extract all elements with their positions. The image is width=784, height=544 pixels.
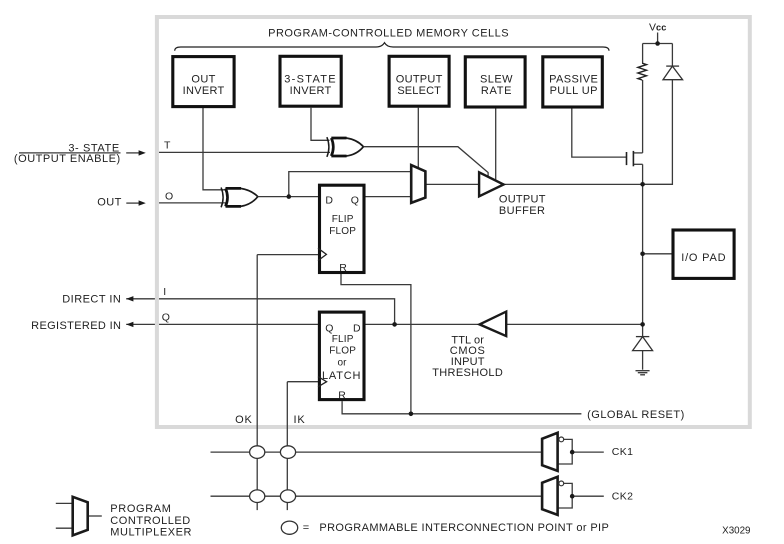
svg-text:MULTIPLEXER: MULTIPLEXER: [110, 527, 192, 539]
svg-text:BUFFER: BUFFER: [499, 205, 545, 217]
svg-text:INVERT: INVERT: [183, 85, 225, 97]
svg-text:=: =: [303, 522, 309, 534]
svg-text:T: T: [164, 139, 171, 151]
svg-text:LATCH: LATCH: [322, 370, 361, 382]
svg-text:CK2: CK2: [612, 490, 633, 502]
svg-text:PROGRAMMABLE INTERCONNECTION P: PROGRAMMABLE INTERCONNECTION POINT or PI…: [319, 522, 609, 534]
svg-text:CK1: CK1: [612, 446, 633, 458]
svg-text:OUTPUT: OUTPUT: [396, 74, 443, 86]
svg-text:I: I: [163, 286, 166, 298]
svg-text:DIRECT IN: DIRECT IN: [62, 294, 121, 306]
svg-text:PASSIVE: PASSIVE: [549, 74, 598, 86]
svg-text:Vcc: Vcc: [649, 22, 667, 34]
svg-text:SELECT: SELECT: [397, 85, 441, 97]
svg-text:O: O: [165, 191, 173, 203]
svg-text:REGISTERED IN: REGISTERED IN: [31, 320, 121, 332]
svg-text:PROGRAM-CONTROLLED MEMORY CELL: PROGRAM-CONTROLLED MEMORY CELLS: [268, 28, 509, 40]
svg-text:D: D: [353, 322, 361, 334]
svg-text:PROGRAM: PROGRAM: [110, 503, 171, 515]
svg-text:3-STATE: 3-STATE: [284, 74, 337, 86]
svg-text:FLOP: FLOP: [329, 226, 356, 237]
svg-text:INVERT: INVERT: [290, 85, 332, 97]
svg-text:FLIP: FLIP: [332, 214, 354, 225]
svg-text:PULL UP: PULL UP: [550, 85, 598, 97]
svg-text:X3029: X3029: [722, 526, 750, 537]
svg-text:RATE: RATE: [481, 85, 512, 97]
svg-text:Q: Q: [162, 311, 170, 323]
svg-text:OUT: OUT: [191, 74, 215, 86]
svg-text:or: or: [338, 358, 348, 369]
svg-text:IK: IK: [294, 414, 306, 426]
svg-text:FLIP: FLIP: [332, 334, 354, 345]
svg-text:OUTPUT: OUTPUT: [499, 194, 546, 206]
svg-text:(GLOBAL RESET): (GLOBAL RESET): [587, 409, 685, 421]
svg-text:Q: Q: [325, 323, 333, 335]
svg-text:SLEW: SLEW: [480, 74, 513, 86]
svg-text:R: R: [338, 390, 346, 402]
svg-text:OUT: OUT: [97, 197, 121, 209]
svg-text:I/O PAD: I/O PAD: [681, 252, 726, 264]
svg-text:Q: Q: [351, 195, 359, 207]
svg-text:R: R: [339, 262, 347, 274]
svg-text:CONTROLLED: CONTROLLED: [110, 515, 190, 527]
svg-text:(OUTPUT ENABLE): (OUTPUT ENABLE): [14, 153, 121, 165]
svg-text:OK: OK: [235, 414, 253, 426]
svg-text:THRESHOLD: THRESHOLD: [432, 367, 503, 379]
svg-text:D: D: [325, 195, 333, 207]
svg-text:FLOP: FLOP: [329, 346, 356, 357]
